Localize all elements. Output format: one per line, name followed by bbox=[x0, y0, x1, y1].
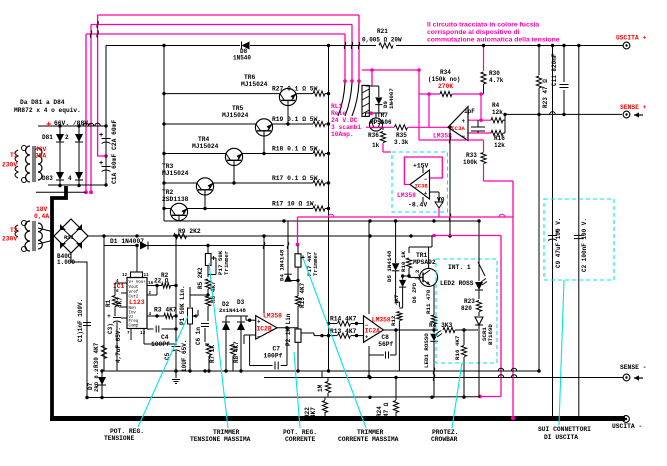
svg-text:3K3: 3K3 bbox=[441, 322, 453, 329]
svg-text:TR2: TR2 bbox=[162, 189, 174, 196]
svg-text:D4 1N4148: D4 1N4148 bbox=[279, 249, 286, 281]
svg-text:R16: R16 bbox=[494, 135, 505, 142]
svg-text:POT. REG.: POT. REG. bbox=[283, 429, 317, 436]
svg-text:MJ15024: MJ15024 bbox=[162, 170, 189, 177]
svg-text:+: + bbox=[462, 118, 466, 125]
svg-text:3 scambi: 3 scambi bbox=[331, 124, 361, 131]
svg-text:SUI CONNETTORI: SUI CONNETTORI bbox=[538, 426, 591, 433]
svg-text:D1 1N4007: D1 1N4007 bbox=[110, 238, 144, 245]
svg-text:3.3k: 3.3k bbox=[394, 139, 409, 146]
svg-text:USCITA +: USCITA + bbox=[616, 35, 646, 42]
svg-text:−: − bbox=[257, 334, 261, 341]
svg-text:Rele: Rele bbox=[331, 110, 346, 117]
svg-text:L123: L123 bbox=[129, 299, 145, 306]
svg-text:Trimmer: Trimmer bbox=[312, 251, 319, 276]
svg-text:D5 1N4148: D5 1N4148 bbox=[386, 250, 393, 282]
svg-text:230V: 230V bbox=[2, 236, 17, 243]
svg-text:V+ Voo+: V+ Voo+ bbox=[129, 281, 147, 285]
svg-text:Da D81 a D84: Da D81 a D84 bbox=[20, 99, 65, 106]
svg-text:−: − bbox=[462, 133, 466, 140]
svg-text:T2: T2 bbox=[10, 227, 18, 234]
svg-text:Freq: Freq bbox=[129, 320, 139, 324]
svg-text:R23: R23 bbox=[464, 298, 475, 305]
svg-text:2: 2 bbox=[65, 134, 69, 141]
svg-text:P1 50K Lin.: P1 50K Lin. bbox=[179, 285, 186, 325]
svg-text:47 Ω: 47 Ω bbox=[383, 402, 390, 417]
svg-text:R17 0.1 Ω 5W.: R17 0.1 Ω 5W. bbox=[272, 175, 321, 182]
svg-text:Vout: Vout bbox=[129, 286, 139, 290]
svg-text:R17 10 Ω 1W.: R17 10 Ω 1W. bbox=[272, 200, 317, 207]
svg-text:1k: 1k bbox=[372, 142, 380, 149]
svg-text:24 V.DC: 24 V.DC bbox=[331, 117, 358, 124]
svg-text:BT169D: BT169D bbox=[487, 324, 494, 345]
svg-text:100k: 100k bbox=[463, 159, 478, 166]
svg-text:RS1: RS1 bbox=[64, 234, 75, 241]
svg-text:+15V: +15V bbox=[413, 163, 429, 170]
svg-text:4,7uF 65V.: 4,7uF 65V. bbox=[115, 327, 122, 363]
svg-text:DI USCITA: DI USCITA bbox=[544, 434, 578, 441]
svg-text:R1: R1 bbox=[105, 299, 112, 307]
svg-text:R19 0.1 Ω 5W.: R19 0.1 Ω 5W. bbox=[272, 116, 321, 123]
svg-text:3.3: 3.3 bbox=[414, 269, 421, 280]
svg-text:D81: D81 bbox=[42, 134, 53, 141]
svg-text:MPSA06: MPSA06 bbox=[370, 119, 392, 126]
svg-text:0,005 Ω 20W: 0,005 Ω 20W bbox=[362, 37, 402, 44]
svg-text:C8: C8 bbox=[381, 334, 389, 341]
svg-text:C7: C7 bbox=[273, 346, 281, 353]
svg-text:820: 820 bbox=[461, 305, 472, 312]
svg-text:+: + bbox=[257, 319, 261, 326]
svg-text:CROWBAR: CROWBAR bbox=[431, 436, 458, 443]
svg-text:TENSIONE MASSIMA: TENSIONE MASSIMA bbox=[190, 436, 251, 443]
svg-text:POT. REG.: POT. REG. bbox=[110, 428, 144, 435]
svg-text:TRIMMER: TRIMMER bbox=[357, 429, 384, 436]
svg-text:230V: 230V bbox=[2, 162, 17, 169]
svg-text:4K7: 4K7 bbox=[393, 294, 400, 305]
svg-text:R16 4K7: R16 4K7 bbox=[454, 335, 461, 360]
svg-text:56Pf: 56Pf bbox=[378, 341, 393, 348]
svg-text:TR6: TR6 bbox=[244, 74, 256, 81]
svg-text:SENSE +: SENSE + bbox=[620, 104, 647, 111]
svg-text:IC3A: IC3A bbox=[451, 125, 465, 132]
svg-text:R27 0.1 Ω 5W.: R27 0.1 Ω 5W. bbox=[272, 85, 321, 92]
svg-text:RL1: RL1 bbox=[331, 103, 343, 110]
svg-text:R21: R21 bbox=[377, 28, 388, 35]
svg-text:C4: C4 bbox=[161, 334, 169, 341]
svg-text:SENSE -: SENSE - bbox=[620, 364, 646, 371]
svg-text:MPSA92: MPSA92 bbox=[413, 259, 436, 266]
svg-text:P2 1K Lin: P2 1K Lin bbox=[285, 313, 292, 346]
svg-text:LM358: LM358 bbox=[397, 192, 416, 199]
svg-text:12k: 12k bbox=[492, 109, 503, 116]
svg-text:+: + bbox=[99, 160, 103, 168]
svg-text:R23 47 Ω: R23 47 Ω bbox=[542, 79, 549, 108]
svg-text:2x1N4148: 2x1N4148 bbox=[219, 307, 246, 314]
svg-text:2SD1138: 2SD1138 bbox=[162, 196, 189, 203]
svg-text:7: 7 bbox=[127, 331, 130, 336]
svg-text:C1A 60mF C2A 60mF: C1A 60mF C2A 60mF bbox=[111, 120, 118, 184]
svg-text:-8.4V: -8.4V bbox=[408, 202, 427, 209]
svg-text:Trimmer: Trimmer bbox=[223, 250, 230, 275]
svg-text:R3 4K7: R3 4K7 bbox=[154, 307, 177, 314]
svg-text:IC2B: IC2B bbox=[257, 326, 272, 333]
svg-text:MJ15024: MJ15024 bbox=[192, 143, 219, 150]
svg-text:Non: Non bbox=[129, 307, 137, 311]
svg-text:R33: R33 bbox=[466, 152, 477, 159]
svg-text:TR1: TR1 bbox=[416, 252, 428, 259]
svg-text:(150k no): (150k no) bbox=[428, 76, 460, 83]
svg-text:R10 1K: R10 1K bbox=[400, 251, 407, 272]
svg-text:R9 2K2: R9 2K2 bbox=[178, 228, 201, 235]
svg-text:MR872 x 4 o equiv.: MR872 x 4 o equiv. bbox=[14, 107, 81, 114]
svg-text:ZPD 8.2: ZPD 8.2 bbox=[93, 368, 100, 392]
svg-text:TR5: TR5 bbox=[232, 105, 244, 112]
svg-text:R35: R35 bbox=[396, 132, 407, 139]
svg-text:LED1 ROSSO: LED1 ROSSO bbox=[423, 333, 430, 368]
svg-text:C1)1nF 100V.: C1)1nF 100V. bbox=[77, 299, 84, 342]
svg-text:commutazione automatica della: commutazione automatica della tensione bbox=[427, 37, 560, 44]
svg-text:CORRENTE: CORRENTE bbox=[285, 436, 315, 443]
svg-text:MJ15024: MJ15024 bbox=[222, 112, 249, 119]
svg-text:R14 4K7: R14 4K7 bbox=[330, 316, 357, 323]
svg-text:270K: 270K bbox=[438, 83, 453, 90]
svg-text:10Amp.: 10Amp. bbox=[331, 131, 354, 138]
svg-text:13: 13 bbox=[140, 331, 146, 336]
svg-text:R5 2K2: R5 2K2 bbox=[197, 267, 204, 289]
svg-text:R13 4K7: R13 4K7 bbox=[330, 328, 357, 335]
svg-text:D6 ZPD: D6 ZPD bbox=[411, 282, 418, 303]
svg-text:C9 47uF 100 V.: C9 47uF 100 V. bbox=[555, 218, 562, 268]
svg-text:LM358: LM358 bbox=[263, 313, 282, 320]
svg-text:D83: D83 bbox=[42, 175, 53, 182]
svg-text:1M: 1M bbox=[317, 384, 324, 392]
svg-text:INT. 1: INT. 1 bbox=[448, 264, 471, 271]
svg-text:LM358: LM358 bbox=[433, 133, 452, 140]
svg-text:TR4: TR4 bbox=[198, 136, 210, 143]
svg-text:D3: D3 bbox=[237, 299, 245, 306]
svg-text:1N4007: 1N4007 bbox=[388, 88, 395, 109]
svg-text:+: + bbox=[107, 313, 111, 320]
svg-text:R8 4K7: R8 4K7 bbox=[233, 341, 240, 363]
svg-text:TR3: TR3 bbox=[162, 163, 174, 170]
svg-text:R4: R4 bbox=[492, 102, 500, 109]
svg-text:12: 12 bbox=[122, 273, 128, 278]
svg-text:R30 4K7: R30 4K7 bbox=[93, 342, 100, 368]
svg-text:TENSIONE: TENSIONE bbox=[104, 435, 134, 442]
svg-text:R36: R36 bbox=[368, 132, 379, 139]
svg-text:LED2 ROSS: LED2 ROSS bbox=[440, 280, 474, 287]
svg-text:22 Ω: 22 Ω bbox=[154, 278, 169, 285]
svg-text:6: 6 bbox=[116, 289, 119, 294]
svg-text:2: 2 bbox=[149, 291, 152, 296]
svg-text:1N540: 1N540 bbox=[233, 55, 251, 62]
svg-text:R18 0.1 Ω 5W.: R18 0.1 Ω 5W. bbox=[272, 145, 321, 152]
svg-text:PROTEZ.: PROTEZ. bbox=[432, 429, 458, 436]
svg-text:R12: R12 bbox=[390, 315, 397, 326]
svg-text:18V: 18V bbox=[36, 206, 48, 213]
svg-text:T1: T1 bbox=[10, 152, 18, 159]
svg-text:R34: R34 bbox=[440, 69, 451, 76]
svg-text:R30: R30 bbox=[489, 70, 500, 77]
svg-text:C6 1n: C6 1n bbox=[195, 327, 202, 345]
svg-text:Il circuito tracciato in color: Il circuito tracciato in colore fucsia bbox=[427, 22, 539, 29]
svg-text:USCITA -: USCITA - bbox=[612, 423, 642, 430]
svg-text:1pF: 1pF bbox=[464, 108, 475, 115]
svg-text:MJ15024: MJ15024 bbox=[241, 81, 268, 88]
svg-text:+: + bbox=[99, 132, 103, 140]
svg-text:R15 4K7: R15 4K7 bbox=[299, 282, 306, 308]
svg-text:12k: 12k bbox=[494, 142, 505, 149]
svg-text:Vref: Vref bbox=[129, 290, 139, 295]
svg-text:35A: 35A bbox=[35, 153, 47, 160]
svg-text:IC3B: IC3B bbox=[415, 183, 429, 190]
svg-text:corrisponde al dispositivo di: corrisponde al dispositivo di bbox=[427, 29, 520, 36]
svg-text:Comp: Comp bbox=[129, 325, 139, 329]
svg-text:R11 470: R11 470 bbox=[425, 289, 432, 314]
svg-text:10: 10 bbox=[148, 281, 154, 286]
svg-text:LM358: LM358 bbox=[372, 317, 391, 324]
svg-text:100Pf: 100Pf bbox=[264, 353, 283, 360]
svg-text:C3): C3) bbox=[107, 323, 114, 334]
svg-text:11: 11 bbox=[144, 273, 150, 278]
svg-text:IC2A: IC2A bbox=[365, 327, 380, 334]
svg-text:TR7: TR7 bbox=[377, 112, 388, 119]
svg-text:+: + bbox=[46, 120, 51, 130]
svg-text:4: 4 bbox=[149, 312, 152, 317]
svg-text:Inv: Inv bbox=[129, 312, 137, 316]
svg-text:4: 4 bbox=[68, 175, 72, 182]
svg-text:R24: R24 bbox=[376, 406, 383, 417]
svg-text:CORRENTE MASSIMA: CORRENTE MASSIMA bbox=[338, 436, 399, 443]
svg-text:4K7: 4K7 bbox=[117, 297, 124, 308]
svg-text:4K7: 4K7 bbox=[310, 407, 317, 418]
svg-text:4.7k: 4.7k bbox=[489, 77, 504, 84]
svg-text:C2 100nF 100 V.: C2 100nF 100 V. bbox=[581, 218, 588, 272]
svg-text:R7 1K: R7 1K bbox=[209, 345, 216, 363]
svg-text:TRIMMER: TRIMMER bbox=[213, 429, 240, 436]
svg-text:0,4A: 0,4A bbox=[34, 213, 49, 220]
svg-text:10UF 65V.: 10UF 65V. bbox=[181, 340, 188, 372]
